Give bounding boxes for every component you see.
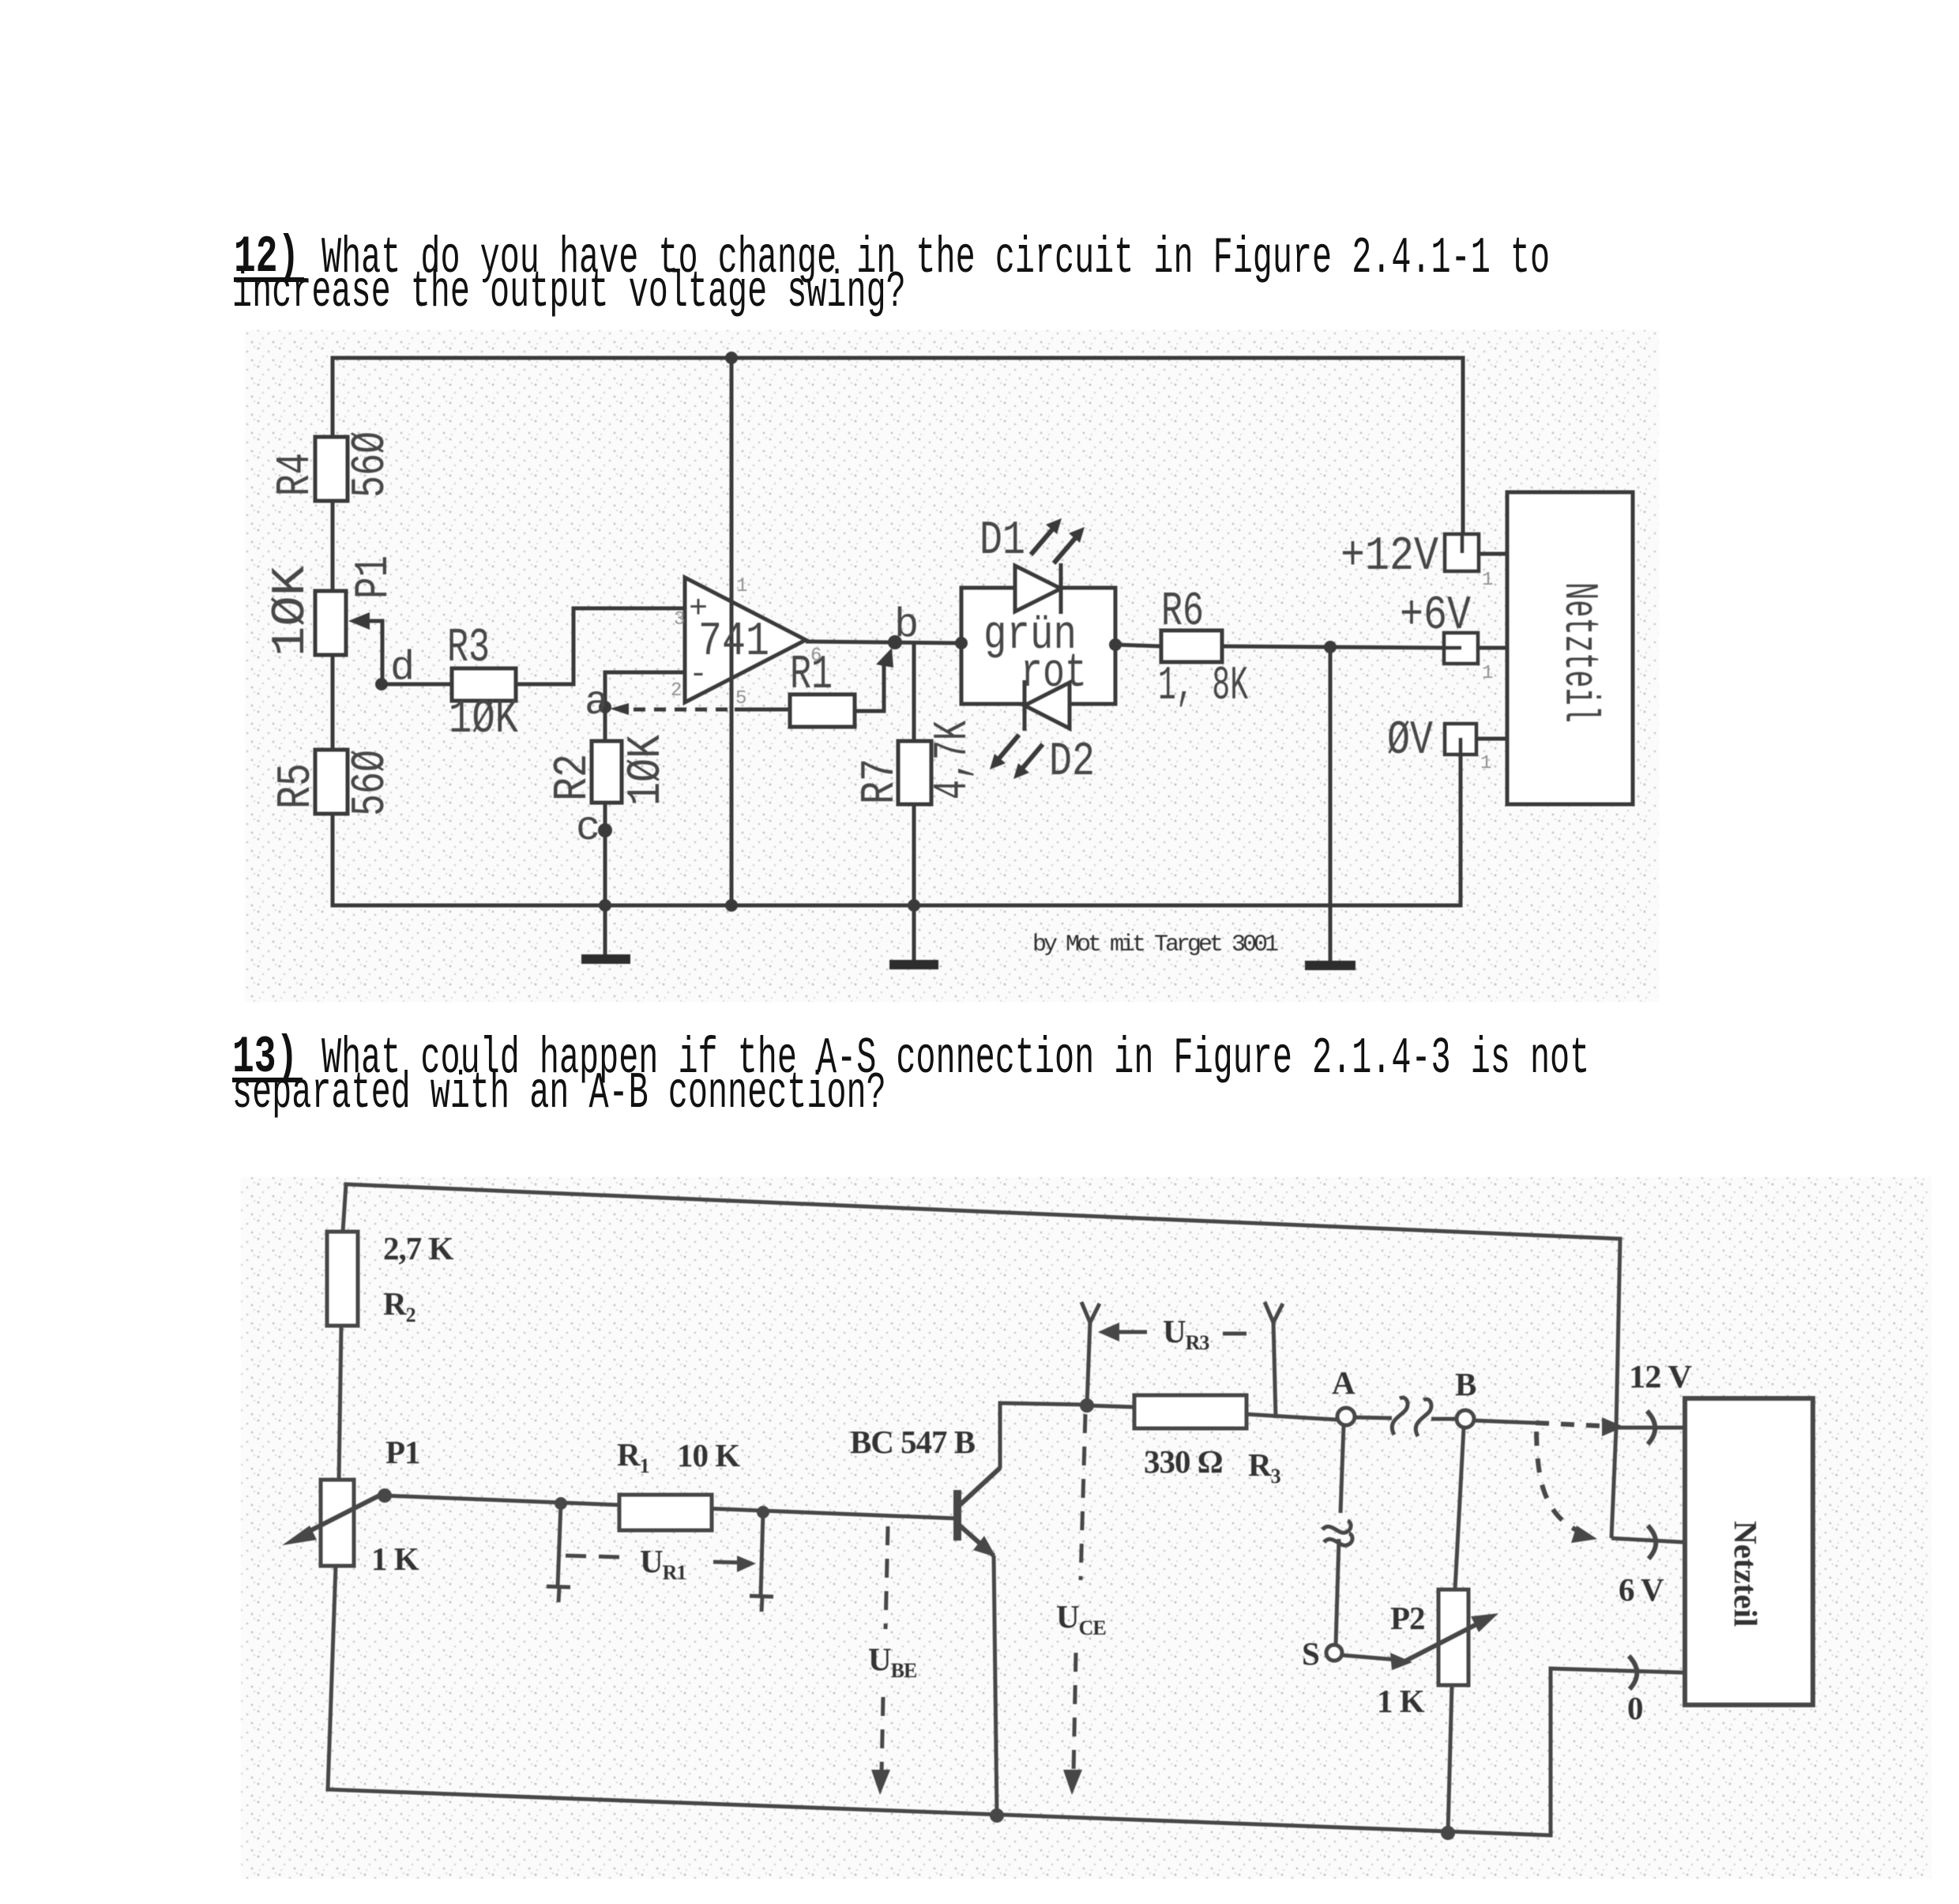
wire R7 to rail bbox=[912, 804, 916, 905]
wire bottom 0V rail bbox=[333, 904, 1461, 908]
node left probe bbox=[555, 1497, 567, 1510]
connector 0V bbox=[1387, 714, 1507, 774]
wire collector riser bbox=[1000, 1403, 1087, 1469]
transistor Q1 BC 547 B bbox=[850, 1403, 1087, 1816]
resistor R6 bbox=[1158, 585, 1248, 713]
LED block (duo LED) bbox=[961, 588, 1115, 704]
svg-text:+: + bbox=[689, 592, 708, 627]
power supply box Netzteil bbox=[1507, 492, 1633, 804]
svg-text:6 V: 6 V bbox=[1619, 1571, 1664, 1608]
svg-text:741: 741 bbox=[698, 615, 769, 669]
wire P1 to bottom rail bbox=[328, 1566, 336, 1789]
svg-text:-: - bbox=[689, 657, 708, 693]
halftone scan background of figure 2.1.4-3 bbox=[241, 1177, 1931, 1879]
svg-text:rot: rot bbox=[1021, 647, 1087, 701]
ground under R7 bbox=[889, 905, 938, 969]
resistor R4 bbox=[269, 431, 398, 501]
svg-text:P1: P1 bbox=[348, 555, 401, 599]
resistor R5 bbox=[270, 750, 398, 816]
wire b to R7 bbox=[912, 643, 916, 741]
svg-text:D2: D2 bbox=[1049, 736, 1095, 789]
halftone scan background of figure 2.4.1-1 bbox=[245, 330, 1659, 1002]
resistor R2 2,7K bbox=[327, 1230, 454, 1326]
potentiometer P1 1K bbox=[282, 1434, 420, 1577]
node collector tap bbox=[1080, 1398, 1094, 1413]
node LED right bbox=[1109, 638, 1122, 651]
svg-text:4,7K: 4,7K bbox=[927, 721, 980, 800]
svg-text:P1: P1 bbox=[385, 1434, 420, 1470]
svg-text:R4: R4 bbox=[269, 453, 323, 496]
wire +12V drop from top rail bbox=[1461, 358, 1465, 534]
svg-text:56Ø: 56Ø bbox=[344, 750, 398, 816]
wire bottom rail of figure 2 bbox=[328, 1789, 1551, 1835]
dashed feedback wire a to R1 with arrow bbox=[610, 703, 790, 715]
wire B down to P2 bbox=[1455, 1428, 1464, 1590]
wire top rail of figure 2 bbox=[346, 1184, 1620, 1239]
measurement arrow U_BE bbox=[868, 1526, 917, 1795]
svg-text:R3: R3 bbox=[447, 622, 490, 675]
wire break to B bbox=[1431, 1417, 1457, 1421]
wire S to P2 wiper bbox=[1342, 1655, 1398, 1660]
wire left frame top segment bbox=[343, 1184, 346, 1232]
svg-text:1ØK: 1ØK bbox=[449, 693, 518, 747]
svg-text:1 K: 1 K bbox=[1377, 1683, 1425, 1719]
LED D1 gruen bbox=[979, 514, 1085, 614]
svg-text:B: B bbox=[1455, 1366, 1476, 1402]
resistor R7 bbox=[854, 721, 980, 804]
svg-text:Netzteil: Netzteil bbox=[1728, 1521, 1764, 1627]
question 12 text bbox=[234, 231, 299, 284]
wire op-amp V+ supply line bbox=[730, 358, 734, 905]
svg-text:by Mot mit Target 3001: by Mot mit Target 3001 bbox=[1032, 931, 1278, 958]
wire d to R3 bbox=[382, 683, 452, 687]
potentiometer P2 1K bbox=[1377, 1590, 1498, 1719]
svg-text:10 K: 10 K bbox=[677, 1437, 740, 1473]
node at ground drop bbox=[1324, 641, 1337, 653]
LED D2 rot bbox=[990, 680, 1095, 789]
connector +6V bbox=[1400, 589, 1507, 684]
question 13 text bbox=[232, 1032, 298, 1084]
terminal arc 6V bbox=[1648, 1526, 1656, 1559]
svg-text:1ØK: 1ØK bbox=[265, 566, 318, 657]
node S bbox=[1302, 1635, 1342, 1672]
wire top supply rail bbox=[333, 356, 1463, 360]
svg-text:1: 1 bbox=[1480, 753, 1491, 774]
node b bbox=[888, 602, 919, 649]
wire R2 to node c bbox=[603, 803, 607, 905]
junction dots on rails bbox=[725, 352, 738, 364]
wire collector to resistor R3 bbox=[1087, 1405, 1136, 1407]
svg-text:1 K: 1 K bbox=[371, 1541, 419, 1577]
svg-text:R1: R1 bbox=[790, 649, 833, 702]
node LED left bbox=[955, 637, 968, 649]
wire LED to R6 bbox=[1115, 645, 1161, 646]
svg-text:1: 1 bbox=[736, 576, 747, 597]
wire minus input to node a bbox=[605, 672, 685, 707]
svg-text:2: 2 bbox=[671, 680, 681, 702]
node d bbox=[375, 645, 415, 691]
svg-text:1: 1 bbox=[1482, 570, 1493, 591]
wire base net P1 to transistor bbox=[385, 1496, 957, 1518]
wire R2 branch: node a to ground bbox=[603, 707, 607, 741]
wire 0-terminal riser bbox=[1551, 1669, 1683, 1835]
svg-text:P2: P2 bbox=[1390, 1600, 1425, 1636]
node A bbox=[1332, 1364, 1356, 1425]
wire A to break bbox=[1355, 1417, 1392, 1418]
power supply box Netzteil (figure 2) bbox=[1685, 1398, 1813, 1705]
resistor R3 bbox=[447, 622, 518, 747]
svg-text:1: 1 bbox=[1482, 663, 1493, 684]
probe mark left of U_R3 bbox=[1081, 1302, 1100, 1405]
dashed jumper B to 12V terminal bbox=[1474, 1417, 1624, 1436]
node a bbox=[585, 679, 611, 726]
probe mark right of U_R1 bbox=[750, 1512, 773, 1612]
wire op-amp output to LED block bbox=[806, 642, 961, 643]
node emitter on rail bbox=[990, 1808, 1004, 1823]
svg-text:5: 5 bbox=[735, 688, 746, 709]
probe mark left of U_R1 bbox=[547, 1503, 570, 1602]
wire 0V riser to connector bbox=[1459, 754, 1463, 905]
svg-text:56Ø: 56Ø bbox=[344, 431, 398, 498]
svg-text:D1: D1 bbox=[979, 514, 1025, 568]
svg-text:+12V: +12V bbox=[1340, 530, 1438, 584]
wire R3 to op-amp plus input bbox=[516, 608, 685, 684]
svg-text:2,7 K: 2,7 K bbox=[383, 1230, 454, 1266]
svg-text:c: c bbox=[576, 805, 600, 852]
measurement arrow U_R3 bbox=[1098, 1313, 1258, 1354]
svg-text:330 Ω: 330 Ω bbox=[1144, 1443, 1223, 1480]
svg-text:12 V: 12 V bbox=[1629, 1358, 1692, 1394]
measurement arrow U_CE bbox=[1056, 1414, 1106, 1795]
connector +12V bbox=[1340, 530, 1507, 591]
wire emitter drop bbox=[994, 1556, 997, 1816]
wire R1 to node b with arrow bbox=[855, 648, 893, 711]
wire 12V feed from top rail bbox=[1611, 1239, 1683, 1542]
ground under R2 bbox=[581, 905, 630, 964]
wire R3 to node A bbox=[1246, 1414, 1337, 1420]
wire A down to S with break bbox=[1322, 1425, 1352, 1645]
svg-text:Netzteil: Netzteil bbox=[1551, 582, 1605, 723]
wire R6 to +6V connector bbox=[1222, 646, 1444, 648]
resistor R3 330 Ohm bbox=[1134, 1395, 1281, 1488]
node P1 wiper bbox=[378, 1488, 392, 1503]
svg-text:R5: R5 bbox=[270, 763, 324, 809]
node right probe bbox=[757, 1506, 769, 1518]
node B bbox=[1455, 1366, 1476, 1428]
wire R2 to P1 bbox=[339, 1326, 341, 1480]
wire P2 down to rail bbox=[1448, 1685, 1452, 1833]
resistor R2 bbox=[547, 735, 674, 806]
svg-text:S: S bbox=[1302, 1635, 1319, 1672]
svg-text:3: 3 bbox=[674, 609, 684, 630]
svg-text:0: 0 bbox=[1627, 1690, 1643, 1726]
terminal arc 12V bbox=[1647, 1411, 1655, 1444]
op-amp U1 741 bbox=[671, 358, 821, 905]
svg-text:ØV: ØV bbox=[1387, 714, 1433, 768]
svg-text:R2: R2 bbox=[547, 754, 600, 801]
svg-text:R7: R7 bbox=[854, 758, 908, 804]
wire drop to ground bbox=[1329, 647, 1333, 961]
measurement arrow U_R1 bbox=[566, 1543, 756, 1584]
svg-text:BC 547 B: BC 547 B bbox=[850, 1424, 976, 1460]
resistor R1 bbox=[790, 649, 855, 727]
node P2 on rail bbox=[1441, 1826, 1455, 1840]
terminal arc 0 bbox=[1629, 1656, 1637, 1689]
svg-text:1, 8K: 1, 8K bbox=[1158, 660, 1248, 713]
svg-text:R6: R6 bbox=[1161, 585, 1204, 639]
probe mark right of U_R3 bbox=[1265, 1302, 1283, 1418]
wire left branch (R4/P1/R5 chain) bbox=[331, 358, 335, 905]
svg-text:A: A bbox=[1332, 1364, 1356, 1401]
dashed jumper down to 6V terminal bbox=[1536, 1432, 1597, 1543]
node c bbox=[576, 805, 612, 852]
svg-text:b: b bbox=[894, 602, 919, 649]
ground right bbox=[1305, 961, 1356, 970]
potentiometer P1 bbox=[265, 555, 401, 684]
resistor R1 10K bbox=[617, 1436, 740, 1530]
svg-text:1ØK: 1ØK bbox=[620, 735, 674, 806]
break symbol A-B bbox=[1392, 1398, 1431, 1436]
